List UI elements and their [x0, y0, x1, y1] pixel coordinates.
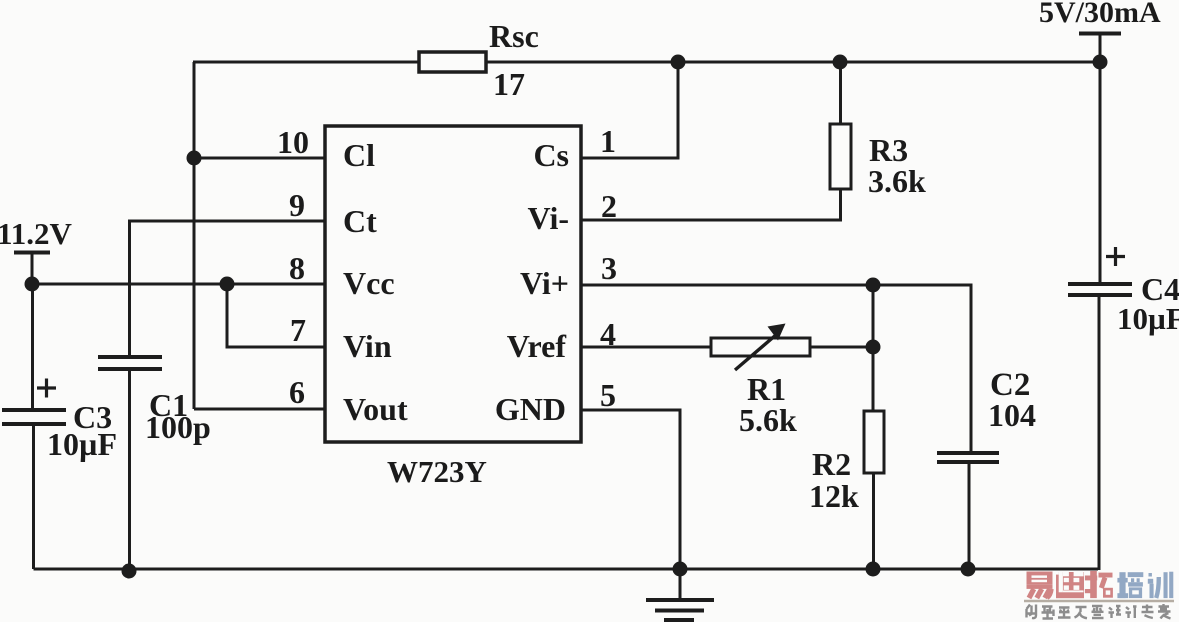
svg-text:Vcc: Vcc — [343, 265, 395, 301]
wire: divider vertical pin3 node to R2 top — [872, 285, 875, 411]
junction node at input/C3 — [25, 277, 40, 292]
junction node at pin3/divider — [866, 278, 881, 293]
output terminal 5V/30mA — [1079, 32, 1121, 36]
svg-text:Vref: Vref — [507, 328, 567, 364]
wire: C2 bottom to ground rail — [968, 463, 971, 569]
resistor R2 — [864, 411, 884, 473]
svg-text:R2: R2 — [812, 446, 851, 482]
svg-text:Vout: Vout — [343, 391, 408, 427]
wire: Vin tap from Vcc line to pin 7 — [227, 284, 325, 347]
watermark underline — [1024, 600, 1174, 603]
svg-text:5V/30mA: 5V/30mA — [1039, 0, 1161, 29]
junction node at riser/pin10 — [187, 151, 202, 166]
junction node at ground rail/R2 — [866, 562, 881, 577]
svg-text:Ct: Ct — [343, 203, 377, 239]
junction node at top rail/R3 — [833, 55, 848, 70]
wire: pin 9 Ct left then down to C1 — [130, 221, 326, 355]
input terminal 11.2V — [14, 251, 50, 255]
label + of C4 — [1106, 247, 1125, 266]
junction node at ground rail/C1 — [122, 564, 137, 579]
potentiometer R1 — [711, 338, 810, 356]
junction node at top rail/output — [1093, 55, 1108, 70]
wire: input node down to C3 — [31, 284, 34, 408]
svg-text:12k: 12k — [809, 478, 859, 514]
junction node at top rail/pin1 — [671, 55, 686, 70]
wire: pin 3 Vi+ right to C2 branch corner — [581, 285, 971, 452]
watermark char yi (red) — [1027, 572, 1053, 599]
wire: pin 6 Vout to riser — [194, 408, 325, 411]
svg-text:Cs: Cs — [533, 137, 569, 173]
capacitor C2 — [937, 451, 999, 455]
svg-text:2: 2 — [601, 188, 617, 224]
svg-text:6: 6 — [289, 374, 305, 410]
resistor R3 — [830, 124, 851, 189]
svg-text:4: 4 — [600, 316, 616, 352]
wire: pin 1 Cs right then up to top rail — [581, 62, 678, 158]
resistor Rsc — [419, 52, 486, 72]
svg-text:5.6k: 5.6k — [739, 402, 797, 438]
wire: R2 bottom to ground rail — [872, 473, 875, 569]
svg-text:104: 104 — [988, 397, 1036, 433]
wire: output rail down to C4 — [1099, 62, 1102, 283]
wire: pin 5 GND right then down to ground rail — [581, 410, 680, 569]
wire: R3 top stub from top rail — [839, 62, 842, 124]
svg-text:10µF: 10µF — [47, 426, 117, 462]
svg-text:11.2V: 11.2V — [0, 216, 73, 251]
capacitor C1 — [98, 355, 162, 359]
junction node at Vcc/Vin tap — [220, 277, 235, 292]
wire: left riser from top rail down to Vout pin level — [193, 62, 196, 409]
junction node at ground rail/C2 — [961, 562, 976, 577]
watermark char di (red) — [1056, 572, 1084, 598]
svg-text:100p: 100p — [145, 409, 211, 445]
wire: top rail from Vout riser through Rsc to output node — [193, 61, 1100, 64]
wire: C4 bottom down to ground rail corner — [1098, 297, 1101, 570]
svg-text:8: 8 — [289, 250, 305, 286]
ground — [679, 569, 682, 600]
op-amp regulator IC U1 W723Y box — [325, 126, 581, 442]
capacitor C3 — [2, 408, 66, 412]
junction node at R1/divider — [866, 340, 881, 355]
watermark char pei (blue) — [1117, 572, 1143, 598]
svg-text:7: 7 — [290, 312, 306, 348]
wire: bottom ground rail — [34, 568, 1099, 571]
svg-text:Cl: Cl — [343, 137, 375, 173]
svg-text:10: 10 — [277, 124, 309, 160]
wire: C3 bottom down then ground rail start — [32, 426, 35, 569]
svg-text:Vin: Vin — [343, 328, 392, 364]
svg-text:1: 1 — [600, 123, 616, 159]
wire: pin 10 Cl to riser — [194, 157, 325, 160]
svg-text:Vi+: Vi+ — [520, 265, 569, 301]
wire: pin 4 Vref to R1 — [581, 346, 711, 349]
svg-text:17: 17 — [493, 66, 525, 102]
wire: pin 2 Vi- to R3 bottom — [581, 189, 841, 220]
watermark char xun (blue) — [1148, 572, 1173, 598]
svg-text:W723Y: W723Y — [387, 454, 487, 489]
svg-text:Rsc: Rsc — [489, 18, 539, 54]
wire: R1 right side to divider node — [810, 346, 873, 349]
svg-text:9: 9 — [289, 187, 305, 223]
watermark char tuo (red) — [1085, 571, 1113, 598]
svg-text:3: 3 — [601, 250, 617, 286]
capacitor C4 — [1068, 282, 1132, 286]
wire: pin 8 Vcc line from input — [32, 283, 325, 286]
junction node at ground rail/ground symbol — [673, 562, 688, 577]
watermark logo big characters — [1027, 571, 1174, 598]
svg-text:10µF: 10µF — [1117, 301, 1179, 336]
label + of C3 — [37, 379, 56, 398]
wire: C1 bottom to ground rail — [128, 371, 131, 571]
svg-text:5: 5 — [600, 377, 616, 413]
svg-text:3.6k: 3.6k — [868, 163, 926, 199]
svg-text:Vi-: Vi- — [528, 200, 569, 236]
svg-text:GND: GND — [495, 391, 566, 427]
watermark slogan pseudo characters (gray) — [1027, 604, 1171, 619]
